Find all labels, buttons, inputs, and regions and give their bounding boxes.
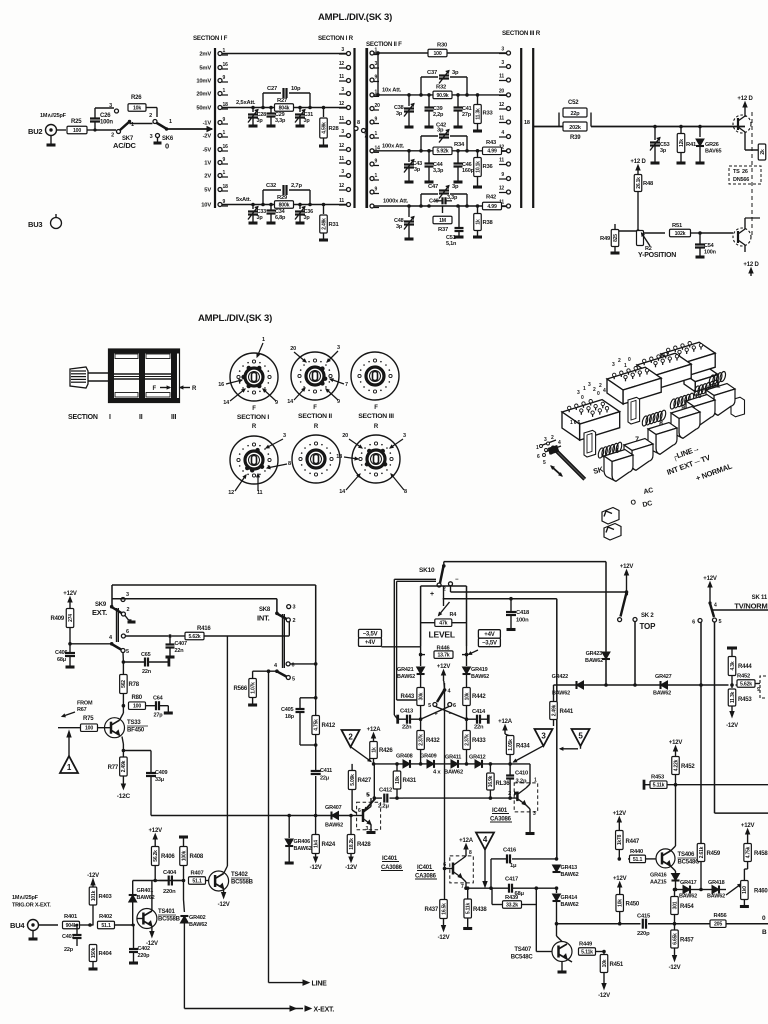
svg-text:1000x Att.: 1000x Att. — [383, 199, 409, 205]
svg-text:SK 11: SK 11 — [752, 595, 768, 601]
resistor R38 — [473, 206, 494, 237]
resistor R442 — [463, 688, 487, 720]
svg-text:R29: R29 — [277, 195, 288, 201]
title AMPL./DIV.(SK3) middle — [198, 313, 272, 324]
wire output rail — [557, 922, 768, 926]
iso wafer 1 pin numbers — [570, 382, 606, 426]
diode GR414 — [553, 888, 579, 924]
resistor R453 wire — [644, 775, 768, 790]
svg-text:R25: R25 — [71, 119, 82, 125]
diode GR408 — [396, 754, 413, 768]
svg-text:SK10: SK10 — [419, 567, 435, 574]
capacitor C54 — [695, 233, 717, 257]
svg-text:2: 2 — [127, 607, 130, 613]
svg-text:3: 3 — [337, 345, 340, 351]
iso label AC DC — [630, 487, 654, 509]
svg-text:C37: C37 — [427, 70, 437, 76]
svg-text:68μ: 68μ — [57, 657, 66, 663]
svg-text:4.22k: 4.22k — [673, 759, 679, 771]
junction dots 10V — [251, 203, 325, 207]
capacitor C410 — [506, 764, 528, 798]
svg-text:R32: R32 — [436, 85, 446, 91]
wire C26 up — [94, 108, 96, 130]
svg-text:4.99: 4.99 — [487, 204, 497, 210]
svg-text:6: 6 — [453, 703, 456, 709]
iso knob 7 — [624, 439, 653, 471]
svg-text:SK8: SK8 — [259, 607, 271, 613]
diode GR419 — [463, 655, 490, 687]
trimmer C28 — [248, 108, 266, 127]
svg-text:18.2k: 18.2k — [349, 838, 355, 850]
capacitor C39 — [425, 95, 445, 127]
svg-text:GR423: GR423 — [586, 651, 603, 657]
svg-text:R440: R440 — [630, 849, 643, 855]
svg-text:R28: R28 — [329, 126, 340, 132]
svg-text:1M: 1M — [439, 218, 446, 224]
diode GR401 — [129, 888, 155, 926]
iso wafer block 3 — [637, 353, 691, 391]
svg-text:205: 205 — [714, 922, 722, 928]
svg-text:1.07k: 1.07k — [250, 682, 256, 694]
svg-text:GR413: GR413 — [561, 865, 578, 871]
svg-text:R426: R426 — [379, 748, 393, 754]
trimmer C36 — [295, 205, 313, 224]
svg-text:12: 12 — [339, 143, 345, 149]
resistor R403 — [87, 873, 112, 926]
resistor R566 — [233, 679, 257, 706]
svg-text:2,7p: 2,7p — [291, 183, 302, 189]
svg-text:301: 301 — [672, 901, 678, 909]
svg-text:BAW62: BAW62 — [137, 895, 155, 901]
svg-text:R449: R449 — [579, 942, 593, 948]
svg-text:TRIG.OR X-EXT.: TRIG.OR X-EXT. — [12, 903, 51, 909]
svg-text:8: 8 — [404, 489, 407, 495]
svg-text:3,3p: 3,3p — [433, 168, 444, 174]
svg-text:GR409: GR409 — [420, 754, 437, 760]
connector BU2 — [28, 125, 66, 146]
resistor R31 — [319, 205, 340, 241]
wire 1000x row — [374, 205, 507, 207]
switch SK7 contact 3 — [109, 103, 118, 113]
wire 2mV row — [222, 53, 347, 55]
svg-text:B: B — [762, 929, 767, 936]
wire bus to SK7 — [95, 129, 116, 131]
capacitor C418 — [443, 597, 557, 630]
switch SK8 pole2 — [274, 662, 318, 683]
svg-text:6: 6 — [358, 808, 361, 814]
label 1M/25pF — [40, 113, 67, 119]
svg-text:-12V: -12V — [146, 941, 158, 947]
resistor R426 — [370, 742, 394, 764]
svg-text:SECTION I: SECTION I — [237, 414, 269, 421]
svg-text:6: 6 — [126, 629, 129, 635]
svg-text:9: 9 — [223, 117, 226, 123]
trimmer C33 — [248, 205, 266, 224]
svg-text:R454: R454 — [680, 904, 694, 910]
svg-text:3,2p: 3,2p — [516, 779, 527, 785]
switch bank SECTION I R — [318, 35, 367, 208]
svg-text:47k: 47k — [439, 621, 447, 627]
svg-text:GR427: GR427 — [655, 674, 672, 680]
capacitor C417 — [505, 877, 525, 898]
svg-text:3: 3 — [375, 61, 378, 67]
svg-text:R38: R38 — [483, 220, 494, 226]
capacitor C26 — [90, 113, 113, 126]
svg-text:2: 2 — [593, 387, 596, 393]
svg-text:2.49k: 2.49k — [321, 218, 327, 230]
wire fet down — [745, 140, 762, 196]
diode GR418 — [707, 880, 725, 900]
rotary III R callouts — [336, 433, 407, 495]
svg-text:R416: R416 — [197, 626, 211, 632]
svg-text:10: 10 — [695, 393, 702, 400]
svg-text:1: 1 — [536, 445, 539, 451]
svg-text:C32: C32 — [266, 183, 276, 189]
svg-text:−3,5V: −3,5V — [482, 641, 497, 647]
svg-text:SECTION I R: SECTION I R — [318, 35, 354, 42]
svg-text:BAW62: BAW62 — [561, 872, 579, 878]
svg-text:C64: C64 — [153, 696, 164, 702]
svg-text:5: 5 — [428, 703, 431, 709]
svg-text:100: 100 — [133, 704, 141, 710]
wire vert chain — [314, 585, 318, 816]
svg-text:R26: R26 — [131, 95, 142, 101]
bracket connector — [755, 676, 766, 698]
svg-text:3p: 3p — [257, 118, 264, 124]
svg-text:20: 20 — [375, 103, 381, 109]
svg-text:R27: R27 — [277, 98, 287, 104]
svg-text:R456: R456 — [714, 913, 728, 919]
svg-text:R424: R424 — [322, 842, 336, 848]
capacitor C29 — [267, 108, 287, 127]
wire c410 vertical — [555, 599, 559, 861]
svg-text:18: 18 — [223, 184, 229, 190]
svg-text:9: 9 — [223, 75, 226, 81]
svg-text:100: 100 — [73, 128, 81, 134]
svg-text:BAW62: BAW62 — [444, 770, 463, 776]
svg-text:II: II — [139, 414, 143, 421]
svg-text:R33: R33 — [483, 111, 494, 117]
wire INT line — [125, 634, 289, 638]
svg-text:8: 8 — [659, 421, 663, 428]
svg-text:3: 3 — [612, 362, 615, 368]
label SK11 — [734, 595, 768, 611]
svg-text:R452: R452 — [681, 764, 695, 770]
diode GR406 — [285, 816, 312, 864]
svg-text:-12V: -12V — [218, 902, 230, 908]
svg-text:9: 9 — [375, 117, 378, 123]
resistor R438 — [463, 886, 487, 928]
svg-text:SECTION II F: SECTION II F — [366, 41, 402, 48]
svg-text:-12V: -12V — [669, 965, 681, 971]
svg-text:12k: 12k — [679, 139, 685, 147]
wire TS33 emitter — [120, 735, 152, 772]
svg-text:18p: 18p — [285, 714, 295, 720]
svg-text:TS407: TS407 — [514, 947, 532, 953]
resistor R48 — [634, 175, 654, 232]
transistor IC401 a dashed — [352, 793, 381, 833]
svg-text:50mV: 50mV — [196, 106, 211, 112]
svg-text:16.9k: 16.9k — [488, 775, 494, 787]
svg-text:C414: C414 — [472, 709, 486, 715]
transistor TS401 — [134, 909, 181, 929]
svg-text:BC558B: BC558B — [158, 917, 181, 923]
svg-text:6,8p: 6,8p — [275, 215, 286, 221]
resistor R449 — [567, 942, 606, 963]
svg-text:TS402: TS402 — [231, 872, 249, 878]
svg-text:11: 11 — [339, 156, 344, 162]
svg-text:BAW62: BAW62 — [585, 658, 603, 664]
wire GR402 branch — [183, 881, 186, 913]
wire R2 to R51 — [644, 232, 666, 234]
resistor R80 — [129, 695, 146, 710]
resistor R49 — [600, 224, 638, 253]
svg-text:33μ: 33μ — [155, 777, 164, 783]
svg-text:GR412: GR412 — [469, 755, 486, 761]
label IC401 a — [381, 856, 403, 871]
svg-text:BAW62: BAW62 — [679, 894, 697, 900]
labels output nets — [762, 915, 767, 936]
label 10xAtt — [382, 88, 402, 94]
iso wafer block 5 — [684, 364, 718, 392]
switch SK2 — [618, 564, 656, 631]
svg-text:2.37k: 2.37k — [464, 734, 470, 746]
svg-text:10.1k: 10.1k — [475, 161, 481, 173]
svg-text:2k: 2k — [760, 149, 766, 155]
svg-text:51.1: 51.1 — [192, 878, 202, 884]
wire row1 II — [374, 51, 507, 55]
svg-text:R428: R428 — [357, 842, 371, 848]
svg-text:R34: R34 — [454, 142, 465, 148]
resistor R75 — [58, 716, 111, 732]
svg-text:C413: C413 — [400, 709, 414, 715]
resistor R456 — [710, 913, 728, 928]
svg-text:3p: 3p — [304, 215, 311, 221]
svg-text:4: 4 — [501, 130, 504, 136]
rotary II F callouts — [287, 345, 348, 405]
transistor TS402 — [209, 871, 254, 891]
svg-text:100: 100 — [85, 726, 93, 732]
switch bank SECTION I F — [193, 35, 228, 209]
svg-text:C27: C27 — [267, 86, 277, 92]
svg-text:0: 0 — [762, 915, 766, 922]
svg-text:GR26: GR26 — [705, 142, 719, 148]
svg-text:TS33: TS33 — [127, 720, 141, 726]
svg-text:6: 6 — [443, 862, 446, 868]
node arrow from triangle 1 — [67, 731, 71, 756]
label 5xAtt — [236, 197, 251, 203]
svg-text:GR402: GR402 — [189, 915, 206, 921]
svg-text:20: 20 — [290, 346, 296, 352]
svg-text:R4: R4 — [450, 612, 458, 618]
transistor T5 fet lower — [700, 228, 751, 252]
svg-text:12: 12 — [339, 101, 345, 107]
svg-text:BC558B: BC558B — [231, 880, 254, 886]
svg-text:9: 9 — [223, 157, 226, 163]
resistor RL36 — [487, 764, 511, 798]
junction dots 10x — [407, 93, 479, 97]
svg-text:BAW62: BAW62 — [325, 823, 343, 829]
svg-text:3: 3 — [501, 60, 504, 66]
svg-text:3: 3 — [109, 103, 112, 109]
resistor R36 — [473, 151, 494, 187]
svg-text:TS401: TS401 — [158, 909, 176, 915]
resistor R32 — [433, 85, 452, 99]
supply +12A R426 — [367, 727, 382, 741]
svg-text:10k: 10k — [133, 105, 141, 111]
transistor IC401 c dashed — [443, 850, 474, 890]
svg-text:C47: C47 — [428, 184, 438, 190]
svg-text:R42: R42 — [486, 195, 496, 201]
svg-text:1: 1 — [223, 170, 226, 176]
svg-text:11: 11 — [339, 116, 344, 122]
junction dots 100x — [407, 149, 479, 153]
svg-text:220p: 220p — [637, 931, 650, 937]
svg-text:202k: 202k — [569, 125, 582, 131]
wire SK7 to SK6 — [130, 122, 153, 124]
svg-text:5.11k: 5.11k — [581, 949, 593, 955]
svg-text:100n: 100n — [516, 618, 529, 624]
svg-text:12: 12 — [339, 61, 345, 67]
svg-text:+12A: +12A — [459, 838, 474, 844]
svg-text:9: 9 — [375, 187, 378, 193]
wire top rail — [112, 585, 316, 607]
svg-text:-5V: -5V — [203, 148, 212, 154]
svg-text:R439: R439 — [505, 895, 519, 901]
svg-text:6.65k: 6.65k — [672, 933, 678, 945]
svg-text:7: 7 — [345, 382, 348, 388]
svg-text:2mV: 2mV — [199, 52, 211, 58]
wire minus to +12V — [451, 586, 629, 594]
svg-text:22n: 22n — [402, 725, 412, 731]
svg-text:+4V: +4V — [484, 632, 494, 638]
wire sk5 vertical — [444, 683, 446, 899]
switch SK5 — [428, 664, 456, 718]
svg-text:SECTION I F: SECTION I F — [193, 35, 228, 42]
svg-text:0: 0 — [581, 395, 584, 401]
svg-text:BAW62: BAW62 — [707, 894, 725, 900]
svg-text:C49: C49 — [429, 199, 439, 205]
svg-text:22μ: 22μ — [320, 776, 329, 782]
svg-text:-12V: -12V — [87, 873, 99, 879]
svg-text:4: 4 — [558, 440, 561, 446]
capacitor C411 — [311, 768, 332, 782]
svg-text:5.11k: 5.11k — [653, 783, 665, 789]
capacitor C51 — [446, 206, 464, 247]
svg-text:8: 8 — [469, 850, 472, 856]
svg-text:R427: R427 — [358, 778, 372, 784]
svg-text:3p: 3p — [257, 215, 264, 221]
svg-text:R444: R444 — [738, 664, 752, 670]
resistor R401 — [63, 914, 80, 929]
svg-text:R438: R438 — [473, 907, 487, 913]
svg-text:1: 1 — [583, 386, 586, 392]
svg-text:5.92k: 5.92k — [437, 149, 449, 155]
label trig input — [12, 895, 51, 909]
wiper arrow section I F — [207, 127, 212, 132]
svg-text:10k: 10k — [464, 692, 470, 700]
wire lower rail — [151, 814, 352, 818]
resistor R416 — [185, 626, 211, 640]
svg-text:9: 9 — [681, 405, 685, 412]
wire 10V row — [222, 204, 347, 206]
svg-text:BU3: BU3 — [28, 220, 42, 229]
svg-text:GR417: GR417 — [680, 880, 697, 886]
transistor IC401 b dashed — [508, 778, 538, 834]
svg-text:X-EXT.: X-EXT. — [314, 1007, 335, 1014]
iso label LINE — [671, 444, 701, 463]
svg-text:10p: 10p — [291, 86, 301, 92]
svg-text:BAW62: BAW62 — [561, 902, 579, 908]
svg-text:R31: R31 — [329, 222, 340, 228]
svg-text:GR416: GR416 — [650, 873, 667, 879]
svg-text:101k: 101k — [91, 890, 97, 901]
svg-text:0: 0 — [628, 357, 631, 363]
label FROM R67 — [62, 701, 93, 717]
svg-text:18: 18 — [524, 120, 530, 126]
svg-text:R43: R43 — [486, 140, 497, 146]
wire SK10 top — [444, 562, 606, 651]
svg-text:R451: R451 — [610, 962, 624, 968]
trimmer C53 — [650, 127, 670, 164]
svg-text:22p: 22p — [571, 111, 581, 117]
capacitor C65 — [123, 652, 168, 675]
svg-text:R443: R443 — [400, 694, 414, 700]
wire R452 to TS406 — [675, 785, 677, 845]
resistor R446 — [419, 646, 469, 659]
svg-text:1: 1 — [223, 88, 226, 94]
capacitor C52 and resistor R39 — [559, 100, 591, 141]
svg-text:LINE: LINE — [312, 981, 328, 988]
svg-text:2: 2 — [508, 791, 511, 797]
capacitor C415 — [637, 914, 651, 938]
wire SK5 cross — [421, 707, 467, 720]
svg-text:3p: 3p — [396, 111, 403, 117]
svg-text:1V: 1V — [204, 161, 211, 167]
iso channel 2 — [628, 397, 640, 424]
svg-text:7: 7 — [635, 437, 639, 444]
iso wafer 2 pin numbers — [612, 357, 631, 369]
capacitor C401 — [62, 924, 82, 953]
box TS26 — [729, 166, 761, 184]
svg-text:18: 18 — [336, 454, 342, 460]
svg-text:R431: R431 — [403, 778, 417, 784]
svg-text:2: 2 — [293, 618, 296, 624]
svg-text:11: 11 — [339, 74, 344, 80]
label 100xAtt — [382, 144, 405, 150]
trimmer C38 — [394, 95, 414, 127]
svg-text:R459: R459 — [707, 851, 721, 857]
svg-text:150k: 150k — [91, 947, 97, 958]
svg-text:30k: 30k — [418, 692, 424, 700]
svg-text:3p: 3p — [414, 167, 421, 173]
svg-text:3: 3 — [341, 129, 344, 135]
resistor R78 — [120, 662, 140, 708]
svg-text:1: 1 — [534, 778, 537, 784]
svg-text:102k: 102k — [675, 231, 686, 237]
svg-text:5: 5 — [292, 677, 295, 683]
svg-text:R432: R432 — [426, 738, 440, 744]
svg-text:51.1: 51.1 — [101, 923, 111, 929]
junction dots out — [653, 125, 702, 129]
svg-text:R450: R450 — [626, 902, 640, 908]
svg-text:Y-POSITION: Y-POSITION — [638, 252, 676, 259]
supply +12D lower — [743, 252, 759, 276]
svg-text:3: 3 — [293, 605, 296, 611]
svg-text:22n: 22n — [142, 669, 152, 675]
resistor R439 — [492, 888, 536, 951]
wire diode row — [372, 762, 530, 766]
